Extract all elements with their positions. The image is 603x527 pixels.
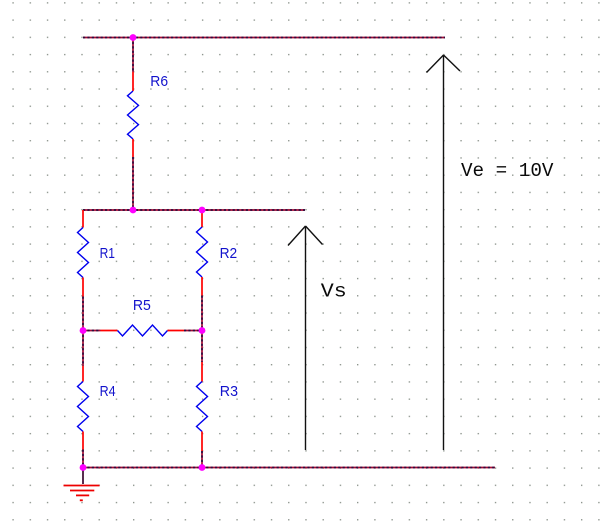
svg-text:R5: R5 [133, 297, 151, 314]
wire bottom bus [83, 467, 495, 469]
wire R1 bottom to node C [82, 297, 84, 331]
node A [130, 34, 137, 41]
wire middle bus [83, 209, 305, 211]
svg-text:R4: R4 [100, 383, 116, 400]
svg-text:R6: R6 [150, 73, 168, 90]
wire node A to R6 top [132, 38, 134, 73]
wire R6 bottom to node B [132, 157, 134, 210]
resistor R3 [197, 362, 208, 451]
node B [130, 207, 137, 214]
wire R5 right to node D [184, 330, 202, 332]
ground [64, 468, 100, 501]
svg-text:Ve = 10V: Ve = 10V [461, 160, 554, 182]
wire node C to R5 left [83, 330, 101, 332]
wire R3 bottom to node F [201, 451, 203, 468]
wire top bus [83, 37, 445, 39]
svg-text:R1: R1 [100, 245, 115, 262]
resistor R1 [78, 210, 89, 297]
wire R2 bottom to node D [201, 296, 203, 331]
resistor R6 [128, 72, 139, 157]
node D [199, 327, 206, 334]
wire R4 bottom to node E [82, 450, 84, 468]
wire node D to R3 top [201, 331, 203, 363]
node C [80, 327, 87, 334]
svg-text:R2: R2 [220, 245, 238, 262]
svg-text:Vs: Vs [321, 281, 347, 303]
arrow Vs [288, 226, 323, 450]
resistor R4 [78, 366, 89, 450]
resistor R5 [101, 325, 185, 336]
resistor R2 [197, 210, 208, 296]
arrow Ve [427, 55, 461, 450]
wire node C to R4 top [82, 331, 84, 367]
node E [80, 464, 87, 471]
node F [199, 464, 206, 471]
svg-text:R3: R3 [220, 383, 238, 400]
node B2 [199, 207, 206, 214]
